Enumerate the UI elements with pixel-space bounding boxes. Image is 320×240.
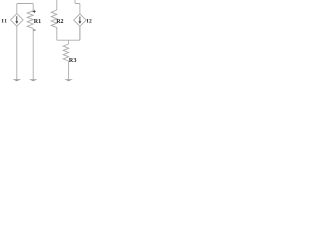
ground G2 — [29, 79, 37, 81]
resistor R2 — [51, 10, 57, 28]
ground G1 — [13, 79, 21, 81]
wire R3 bottom — [68, 61, 70, 79]
svg-text:R2: R2 — [56, 19, 63, 25]
ground G3 — [64, 79, 72, 81]
current source I2 — [74, 14, 86, 26]
wire R3 top stub — [68, 40, 70, 44]
resistor R3 — [63, 44, 68, 61]
svg-text:R3: R3 — [69, 58, 77, 64]
wire R2 top stub — [56, 0, 58, 10]
svg-text:R1: R1 — [34, 19, 41, 25]
wire top rail left loop — [17, 4, 33, 14]
wire I1 bottom — [16, 26, 18, 79]
wire R2 bottom to rail — [56, 28, 58, 41]
wire I2 bottom — [79, 26, 81, 40]
svg-text:I2: I2 — [87, 18, 93, 24]
label - — [33, 29, 36, 32]
label + — [33, 10, 36, 13]
wire R1 bottom — [32, 28, 34, 79]
wire bottom rail right loop — [57, 39, 80, 41]
svg-text:I1: I1 — [2, 19, 8, 25]
wire I2 top corner — [75, 0, 80, 14]
resistor R1 — [27, 11, 33, 29]
current source I1 — [11, 14, 24, 27]
